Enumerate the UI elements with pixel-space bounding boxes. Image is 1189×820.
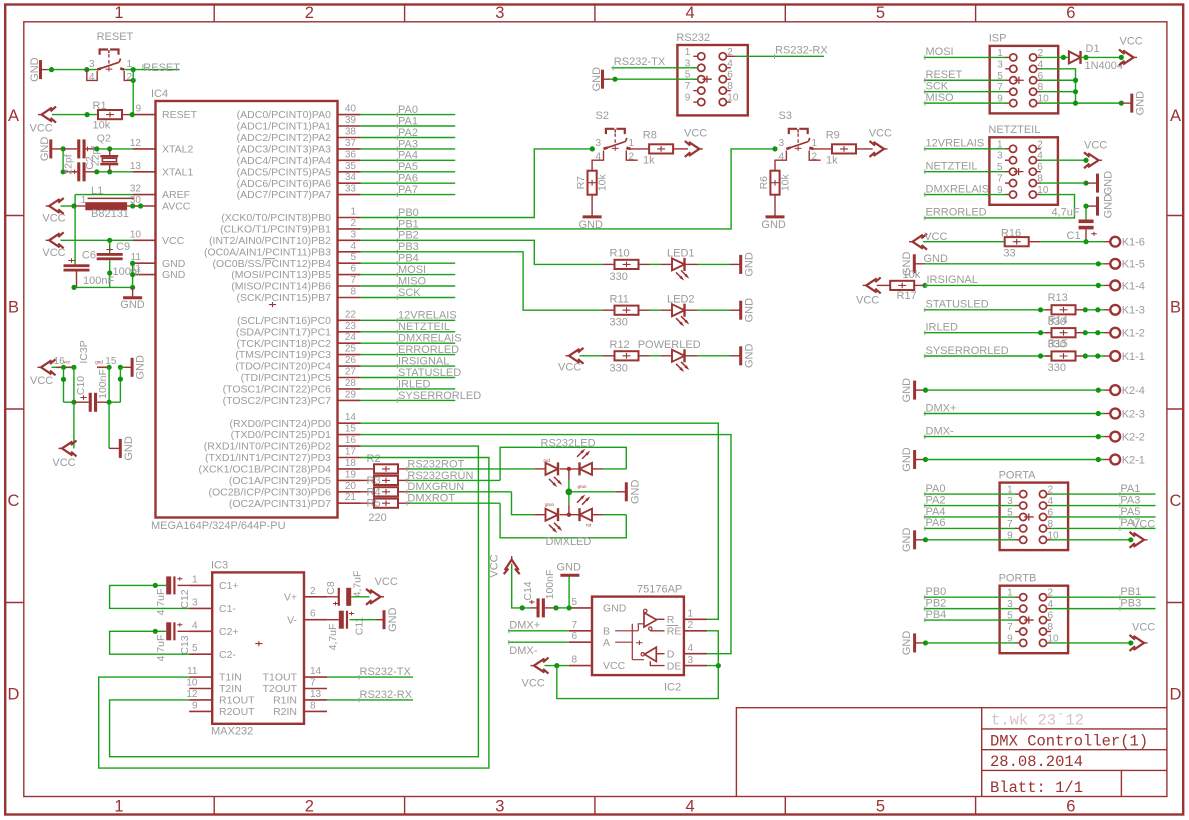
resistor R5 (361, 502, 375, 504)
wire pin4 to VCC (1040, 159, 1087, 161)
wire gnd loop verticals (108, 367, 110, 402)
junction (923, 457, 928, 462)
IC4 left pin stubs (133, 114, 156, 116)
svg-text:25: 25 (345, 344, 357, 355)
svg-text:VCC: VCC (42, 247, 65, 259)
svg-text:VCC: VCC (1084, 140, 1107, 152)
wire net RS232ROT (398, 468, 410, 470)
junction (716, 663, 721, 668)
svg-text:grun: grun (545, 502, 555, 507)
svg-text:DE: DE (667, 660, 682, 672)
wire PD3 to T1IN loop (99, 458, 489, 769)
svg-text:16: 16 (345, 435, 357, 446)
svg-text:9: 9 (685, 93, 691, 104)
svg-text:(ADC4/PCINT4)PA4: (ADC4/PCINT4)PA4 (237, 155, 331, 167)
svg-text:(ADC6/PCINT6)PA6: (ADC6/PCINT6)PA6 (237, 178, 331, 190)
svg-text:7: 7 (571, 620, 577, 631)
svg-text:K1-6: K1-6 (1122, 237, 1145, 249)
svg-text:4: 4 (686, 798, 695, 816)
pad K1-4 (1110, 281, 1120, 291)
svg-text:GND: GND (901, 378, 913, 403)
junction (130, 261, 135, 266)
junction (71, 285, 76, 290)
wire PD1 to IC2 D (361, 435, 732, 654)
wire pin6 (1041, 79, 1076, 81)
wire net ERRORLED (361, 354, 456, 356)
svg-text:8: 8 (350, 287, 356, 298)
svg-text:6: 6 (1066, 798, 1075, 816)
pad K1-2 (1110, 328, 1120, 338)
wire net STATUSLED (361, 377, 456, 379)
svg-text:4,7uF: 4,7uF (327, 624, 339, 651)
wire net DMXROT (398, 502, 410, 504)
svg-text:K2-1: K2-1 (1122, 454, 1145, 466)
wire RE to DE (707, 631, 718, 666)
svg-text:330: 330 (610, 271, 628, 283)
junction (1083, 353, 1088, 358)
wire net MISO to ISP (924, 102, 1006, 104)
svg-text:1N4004: 1N4004 (1085, 60, 1124, 72)
wire AREF to VCC (74, 195, 76, 206)
wire net PB3 (1051, 608, 1156, 610)
wire C13 loop to C2- (110, 631, 190, 654)
wire net RS232-RX from R1IN (327, 699, 413, 701)
junction (1083, 330, 1088, 335)
supply VCC bottom (62, 441, 73, 455)
resistor R7 10k (588, 171, 597, 195)
svg-text:6: 6 (350, 264, 356, 275)
svg-text:DMXRELAIS: DMXRELAIS (926, 183, 990, 195)
wire pin8 to GND (1040, 182, 1086, 184)
LED dmx red (580, 509, 593, 521)
svg-text:PA6: PA6 (398, 173, 418, 185)
ground xtal (49, 139, 52, 158)
svg-text:RESET: RESET (926, 69, 963, 81)
svg-text:GND: GND (744, 252, 756, 277)
capacitor C12 4,7uF (166, 576, 171, 594)
svg-text:STATUSLED: STATUSLED (926, 299, 989, 311)
svg-text:5: 5 (192, 643, 198, 654)
RS232 pin 4 (719, 64, 726, 71)
wire net PA7 (361, 194, 456, 196)
svg-text:V-: V- (287, 614, 297, 626)
svg-text:3: 3 (495, 798, 504, 816)
switch pin2 hook (124, 71, 133, 80)
svg-text:2: 2 (305, 4, 314, 22)
svg-text:grun: grun (578, 484, 588, 489)
svg-text:K1-1: K1-1 (1122, 351, 1145, 363)
svg-text:(OC1A/PCINT29)PD5: (OC1A/PCINT29)PD5 (229, 475, 331, 487)
wire net PA6 (924, 527, 1016, 529)
svg-text:R7: R7 (575, 176, 587, 190)
svg-text:GND: GND (901, 528, 913, 553)
ground RS232 (601, 70, 604, 89)
svg-text:8: 8 (571, 655, 577, 666)
svg-text:22pf: 22pf (63, 154, 75, 175)
wire C11 to GND (350, 619, 377, 621)
svg-text:RESET: RESET (143, 62, 180, 74)
svg-text:VCC: VCC (30, 123, 53, 135)
svg-text:PB4: PB4 (398, 253, 419, 265)
svg-text:1: 1 (629, 138, 635, 149)
K1-4 row: VCC R17 10k IRSIGNAL (866, 278, 877, 292)
wire AREF (75, 194, 133, 196)
svg-text:B: B (8, 299, 19, 317)
supply VCC C8 (370, 590, 381, 604)
svg-text:GND: GND (387, 607, 399, 632)
IC2 right pins (684, 618, 707, 620)
svg-text:IC3P: IC3P (78, 340, 90, 363)
svg-text:3: 3 (192, 597, 198, 608)
junction (1095, 307, 1100, 312)
svg-text:7: 7 (350, 275, 356, 286)
svg-text:VCC: VCC (30, 375, 53, 387)
svg-text:R17: R17 (897, 290, 917, 302)
IC4 right pin stubs and names (338, 114, 361, 116)
svg-text:VCC: VCC (375, 576, 398, 588)
wire net PB2 (924, 608, 1016, 610)
svg-text:GND: GND (629, 480, 641, 505)
S2 pin2 hook (626, 151, 637, 161)
wire VCC branch down to C6 (74, 206, 76, 264)
svg-text:(MOSI/PCINT13)PB5: (MOSI/PCINT13)PB5 (231, 269, 331, 281)
svg-text:DMXLED: DMXLED (546, 536, 592, 548)
ground mcu (132, 287, 134, 297)
svg-text:GND: GND (123, 436, 135, 461)
svg-text:(ADC1/PCINT1)PA1: (ADC1/PCINT1)PA1 (237, 121, 331, 133)
svg-text:GND: GND (557, 562, 582, 574)
junction (130, 203, 135, 208)
svg-text:GND: GND (761, 219, 786, 231)
supply VCC ic3p (41, 360, 52, 374)
wire PB1 to S3 (361, 149, 776, 229)
svg-text:(ADC7/PCINT7)PA7: (ADC7/PCINT7)PA7 (237, 189, 331, 201)
wire gnd bottom row (74, 286, 133, 288)
junction (1083, 55, 1088, 60)
svg-text:VCC: VCC (52, 457, 75, 469)
svg-text:rxd: rxd (544, 458, 551, 463)
ground PORTB (913, 633, 916, 652)
svg-text:IRSIGNAL: IRSIGNAL (927, 274, 978, 286)
svg-text:C9: C9 (116, 241, 130, 253)
svg-text:4,7uF: 4,7uF (155, 635, 167, 662)
svg-text:SCK: SCK (926, 80, 949, 92)
svg-text:MEGA164P/324P/644P-PU: MEGA164P/324P/644P-PU (151, 520, 286, 532)
svg-text:R14: R14 (1048, 315, 1068, 327)
svg-text:T2IN: T2IN (219, 683, 242, 695)
S3 pin4 to R6 (775, 151, 786, 171)
wire net PA7 (1051, 527, 1156, 529)
svg-text:VCC: VCC (856, 295, 879, 307)
svg-text:Blatt: 1/1: Blatt: 1/1 (990, 779, 1083, 797)
RS232 pin 6 (719, 76, 726, 83)
svg-text:R12: R12 (610, 339, 630, 351)
svg-text:T1IN: T1IN (219, 672, 242, 684)
svg-text:32: 32 (130, 184, 142, 195)
svg-text:7: 7 (685, 81, 691, 92)
svg-text:GND: GND (744, 344, 756, 369)
wire net IRLED (361, 388, 456, 390)
wire net PB4 (924, 619, 1016, 621)
svg-text:B: B (603, 625, 610, 637)
svg-text:GND: GND (39, 137, 51, 162)
svg-text:(MISO/PCINT14)PB6: (MISO/PCINT14)PB6 (231, 281, 331, 293)
svg-text:7: 7 (1007, 622, 1013, 633)
wire PB2 to R10 (361, 240, 604, 264)
ground C1 (1096, 197, 1099, 216)
IC3 left pins (189, 584, 212, 586)
junction (61, 169, 66, 174)
wire RESET net to label (124, 69, 179, 71)
junction (1096, 434, 1101, 439)
svg-text:10k: 10k (903, 269, 921, 281)
diode D1 1N4004 (1069, 51, 1081, 63)
svg-text:PA2: PA2 (398, 127, 418, 139)
junction (1083, 158, 1088, 163)
resistor R1 10k (98, 110, 122, 119)
svg-text:4,7uF: 4,7uF (1052, 207, 1080, 219)
svg-text:GND: GND (29, 57, 41, 82)
junction (71, 203, 76, 208)
title block frame (736, 708, 1167, 797)
svg-text:PA7: PA7 (398, 184, 418, 196)
svg-text:A: A (8, 107, 19, 125)
svg-text:STATUSLED: STATUSLED (398, 367, 461, 379)
svg-text:(OC0B/SS/PCINT12)PB4: (OC0B/SS/PCINT12)PB4 (213, 258, 332, 270)
svg-text:DMXGRÜN: DMXGRÜN (407, 481, 464, 493)
RS232 pin5 origin cross (702, 76, 712, 83)
junction (922, 283, 927, 288)
svg-text:(SDA/PCINT17)PC1: (SDA/PCINT17)PC1 (236, 326, 331, 338)
svg-text:10: 10 (130, 229, 142, 240)
wire net RS232-TX from T1OUT (327, 676, 413, 678)
overline SS on PB4 pin name (263, 258, 276, 260)
svg-text:S3: S3 (779, 110, 792, 122)
wire down to R1 row (132, 70, 134, 115)
svg-text:PB2: PB2 (926, 597, 947, 609)
junction (566, 488, 573, 495)
svg-text:PA2: PA2 (926, 494, 946, 506)
junction (49, 67, 54, 72)
svg-text:22: 22 (345, 309, 357, 320)
svg-text:10: 10 (727, 93, 739, 104)
svg-text:GND: GND (1103, 171, 1115, 196)
junction (107, 169, 112, 174)
svg-text:11: 11 (187, 666, 198, 677)
junction (61, 377, 66, 382)
junction (1083, 204, 1088, 209)
ground (730, 263, 741, 265)
svg-text:(CLKO/T1/PCINT9)PB1: (CLKO/T1/PCINT9)PB1 (220, 224, 331, 236)
svg-text:RS232ROT: RS232ROT (407, 458, 464, 470)
svg-text:29: 29 (345, 389, 357, 400)
svg-text:GND: GND (901, 447, 913, 472)
wire net PA4 (924, 516, 1016, 518)
svg-text:IC4: IC4 (151, 88, 168, 100)
svg-text:(OC2A/PCINT31)PD7: (OC2A/PCINT31)PD7 (229, 498, 331, 510)
wire net RESET to ISP (924, 79, 1006, 81)
wire RS232GRUN up and over LED (500, 447, 626, 480)
wire gnd pins vertical (132, 263, 134, 287)
svg-text:40: 40 (345, 104, 357, 115)
svg-text:RESET: RESET (97, 31, 134, 43)
svg-text:PA6: PA6 (926, 517, 946, 529)
svg-text:1: 1 (688, 609, 694, 620)
junction (554, 663, 559, 668)
LED dmx green (534, 514, 545, 516)
svg-text:4,7uF: 4,7uF (155, 589, 167, 616)
K1-5 row: GND (913, 254, 916, 273)
wire net MISO (361, 285, 456, 287)
svg-text:R: R (667, 614, 675, 626)
svg-text:(ADC3/PCINT3)PA3: (ADC3/PCINT3)PA3 (237, 144, 331, 156)
svg-text:12: 12 (186, 689, 198, 700)
wire gnd vertical (62, 149, 64, 172)
connector ISP (990, 46, 1058, 114)
wire net SCK to ISP (924, 91, 1006, 93)
supply VCC S3 (874, 142, 885, 156)
svg-text:15: 15 (345, 424, 357, 435)
svg-text:PA3: PA3 (398, 138, 418, 150)
wire net DMXGRUN (398, 491, 410, 493)
svg-text:R9: R9 (826, 130, 840, 142)
junction (107, 238, 112, 243)
svg-text:MISO: MISO (926, 92, 955, 104)
svg-text:(SCK/PCINT15)PB7: (SCK/PCINT15)PB7 (236, 292, 331, 304)
svg-text:3: 3 (688, 655, 694, 666)
junction (107, 365, 112, 370)
supply VCC netzteil (1088, 153, 1099, 167)
svg-text:3: 3 (350, 229, 356, 240)
svg-text:6: 6 (727, 70, 733, 81)
wire net PA3 (1051, 505, 1156, 507)
ic IC2 75176AP (592, 597, 684, 676)
svg-text:6: 6 (310, 609, 316, 620)
svg-text:R2IN: R2IN (273, 706, 297, 718)
svg-text:PB0: PB0 (926, 586, 947, 598)
svg-text:rot: rot (586, 523, 592, 528)
svg-text:B82131: B82131 (91, 208, 129, 220)
svg-text:39: 39 (345, 115, 357, 126)
svg-text:6: 6 (1066, 4, 1075, 22)
junction (118, 365, 123, 370)
junction (131, 78, 136, 83)
svg-text:12: 12 (130, 138, 142, 149)
svg-text:PA3: PA3 (1120, 494, 1140, 506)
junction (1095, 353, 1100, 358)
svg-text:7: 7 (997, 174, 1003, 185)
svg-text:(TCK/PCINT18)PC2: (TCK/PCINT18)PC2 (236, 338, 331, 350)
capacitor C10 100nF (64, 401, 74, 403)
wire vcc to pin16 (52, 366, 64, 368)
svg-text:RE: RE (667, 626, 682, 638)
RS232 pin 1 (698, 53, 705, 60)
svg-text:13: 13 (130, 161, 142, 172)
svg-text:VCC: VCC (684, 128, 707, 140)
svg-text:10: 10 (186, 678, 198, 689)
wire C14 to IC2 gnd pin (556, 607, 569, 609)
power pin 16 IC3P (57, 366, 77, 368)
svg-text:PA0: PA0 (926, 483, 946, 495)
resistor R6 10k (770, 171, 779, 195)
capacitor C14 100nF (529, 600, 535, 604)
svg-text:14: 14 (310, 666, 322, 677)
svg-text:t.wk 23´12: t.wk 23´12 (991, 712, 1084, 730)
ground ic3p right (120, 366, 124, 368)
svg-text:2: 2 (305, 798, 314, 816)
svg-text:4,7uF: 4,7uF (351, 571, 363, 598)
svg-text:4: 4 (688, 643, 694, 654)
wire pin10 to GND (1041, 102, 1122, 104)
resistor R2 220 (361, 468, 375, 470)
svg-text:(TXD1/INT1/PCINT27)PD3: (TXD1/INT1/PCINT27)PD3 (205, 452, 331, 464)
junction (85, 112, 90, 117)
junction (1083, 239, 1088, 244)
svg-text:330: 330 (1048, 362, 1066, 374)
junction (153, 583, 158, 588)
svg-text:33: 33 (1003, 248, 1015, 260)
svg-text:1: 1 (192, 574, 198, 585)
svg-text:DMX+: DMX+ (509, 619, 540, 631)
svg-text:SYSERRORLED: SYSERRORLED (398, 390, 481, 402)
K1 row K1-2: IRLED (924, 332, 1052, 334)
wire PB0 to S2 (361, 149, 593, 218)
wire net PA3 (361, 148, 456, 150)
svg-text:(ADC0/PCINT0)PA0: (ADC0/PCINT0)PA0 (237, 109, 331, 121)
svg-text:IRLED: IRLED (926, 322, 958, 334)
svg-text:AREF: AREF (162, 189, 190, 201)
wire net SCK (361, 297, 456, 299)
svg-text:9: 9 (192, 700, 198, 711)
pad K1-1 (1110, 351, 1120, 361)
junction (131, 67, 136, 72)
svg-text:RS232-RX: RS232-RX (360, 689, 413, 701)
svg-text:3: 3 (997, 151, 1003, 162)
ground ISP (1121, 102, 1132, 104)
svg-text:1: 1 (812, 138, 818, 149)
svg-text:A: A (1170, 107, 1181, 125)
wire net PA0 (924, 493, 1016, 495)
svg-text:T2OUT: T2OUT (263, 683, 298, 695)
svg-text:19: 19 (345, 469, 357, 480)
svg-text:1k: 1k (643, 155, 655, 167)
RS232 pin 9 (698, 99, 705, 106)
svg-text:RS232-TX: RS232-TX (360, 666, 412, 678)
junction (567, 605, 572, 610)
wire PD0 to IC2 R (361, 423, 719, 619)
junction (1083, 180, 1088, 185)
svg-text:GND: GND (901, 631, 913, 656)
connector PORTB (1000, 586, 1069, 654)
svg-text:(SCL/PCINT16)PC0: (SCL/PCINT16)PC0 (237, 315, 331, 327)
svg-text:(TMS/PCINT19)PC3: (TMS/PCINT19)PC3 (235, 349, 331, 361)
junction (1038, 307, 1043, 312)
svg-text:1: 1 (350, 207, 356, 218)
wire down to supply (73, 402, 75, 448)
svg-text:5: 5 (876, 4, 885, 22)
junction (130, 112, 135, 117)
svg-text:L1: L1 (91, 185, 103, 197)
junction (1073, 78, 1078, 83)
wire net PA2 (361, 137, 456, 139)
supply VCC for R1 (42, 108, 53, 122)
svg-text:S2: S2 (596, 110, 609, 122)
wire net DMXRELAIS (361, 342, 456, 344)
svg-text:GND: GND (579, 219, 604, 231)
junction (553, 605, 558, 610)
svg-text:34: 34 (345, 172, 357, 183)
svg-text:DMX-: DMX- (509, 645, 537, 657)
